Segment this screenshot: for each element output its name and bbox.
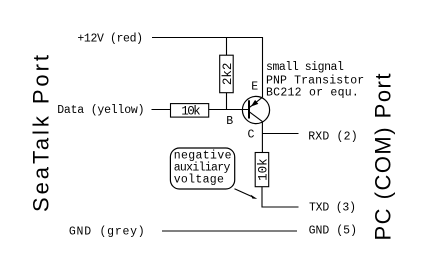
svg-text:PC (COM) Port: PC (COM) Port [371,74,396,241]
wire RXD stub [262,133,298,135]
svg-text:+12V (red): +12V (red) [77,32,143,45]
resistor R2 10k body (horizontal) [171,104,209,118]
resistor R3 10k body (vertical) [255,153,269,187]
annotation arrow to TXD wire [235,189,253,197]
resistor R1 2k2 body [220,55,234,92]
wire collector lead down to R3 [261,122,263,153]
svg-text:GND (5): GND (5) [309,224,357,237]
svg-text:RXD (2): RXD (2) [308,130,357,143]
svg-text:BC212 or equ.: BC212 or equ. [266,87,359,100]
wire Data to resistor [152,109,171,111]
svg-text:TXD (3): TXD (3) [309,202,356,215]
wire resistor to base [209,109,249,111]
annotation callout box: negative auxiliary voltage [170,148,234,189]
wire R3 bottom to TXD [262,187,299,207]
svg-text:E: E [251,81,258,94]
svg-text:GND (grey): GND (grey) [69,225,145,238]
wire 2k2 bottom lead [226,93,228,110]
svg-text:SeaTalk Port: SeaTalk Port [28,55,53,212]
svg-text:B: B [226,115,233,128]
transistor Q1 circle [242,96,269,123]
svg-text:PNP Transistor: PNP Transistor [266,74,364,87]
svg-text:Data (yellow): Data (yellow) [57,104,144,117]
wire GND [162,230,297,232]
transistor Q1 emitter line [249,97,262,107]
wire +12V horizontal and emitter drop [152,38,263,98]
transistor Q1 emitter arrow (PNP, pointing to base) [251,100,258,107]
svg-text:voltage: voltage [174,173,224,186]
svg-text:small signal: small signal [266,61,344,74]
transistor Q1 base bar [248,100,250,118]
svg-text:C: C [248,128,255,141]
svg-text:10k: 10k [181,105,201,119]
wire 2k2 top lead [226,38,228,56]
svg-text:10k: 10k [256,158,270,181]
svg-text:2k2: 2k2 [221,63,235,86]
transistor Q1 collector line [249,112,262,122]
